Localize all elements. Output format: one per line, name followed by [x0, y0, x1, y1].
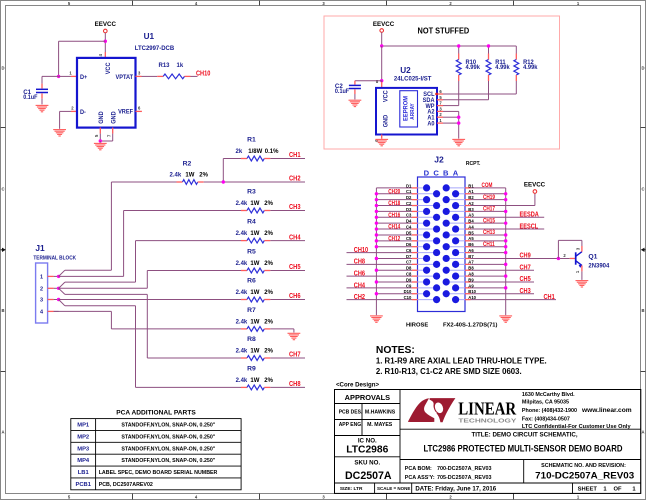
svg-text:CH14: CH14 — [388, 224, 401, 231]
svg-text:STANDOFF,NYLON, SNAP-ON, 0.250: STANDOFF,NYLON, SNAP-ON, 0.250" — [121, 446, 215, 452]
svg-text:VCC: VCC — [382, 90, 390, 102]
svg-text:PCA ASS'Y:: PCA ASS'Y: — [405, 475, 435, 481]
svg-text:LABEL SPEC, DEMO BOARD SERIAL: LABEL SPEC, DEMO BOARD SERIAL NUMBER — [99, 470, 218, 476]
svg-text:C: C — [433, 169, 439, 178]
svg-text:1W: 1W — [250, 290, 259, 296]
svg-text:MP3: MP3 — [77, 446, 90, 452]
svg-text:ARRAY: ARRAY — [409, 103, 415, 120]
svg-text:CH7: CH7 — [289, 351, 301, 359]
svg-text:DC2507A: DC2507A — [345, 470, 392, 482]
svg-text:2%: 2% — [264, 348, 273, 354]
svg-text:2.4k: 2.4k — [170, 172, 182, 178]
svg-text:CH8: CH8 — [289, 380, 301, 388]
svg-text:1W: 1W — [250, 231, 259, 237]
svg-text:710-DC2507A_REV03: 710-DC2507A_REV03 — [535, 470, 634, 481]
svg-text:LTC Confidential-For Customer: LTC Confidential-For Customer Use Only — [522, 424, 632, 430]
svg-text:CH10: CH10 — [196, 70, 211, 78]
svg-text:2: 2 — [40, 287, 43, 293]
svg-text:CH5: CH5 — [520, 276, 532, 284]
svg-text:CH1: CH1 — [544, 293, 556, 301]
svg-text:CH6: CH6 — [289, 293, 301, 301]
svg-text:CH20: CH20 — [388, 189, 400, 196]
svg-text:1W: 1W — [250, 201, 259, 207]
svg-text:PCB1: PCB1 — [75, 482, 91, 488]
svg-text:CH18: CH18 — [388, 201, 400, 208]
svg-text:CH7: CH7 — [520, 264, 532, 272]
svg-text:2%: 2% — [264, 201, 273, 207]
svg-text:STANDOFF,NYLON, SNAP-ON, 0.250: STANDOFF,NYLON, SNAP-ON, 0.250" — [121, 423, 215, 429]
svg-text:1W: 1W — [250, 378, 259, 384]
svg-text:TITLE: DEMO CIRCUIT SCHEMATIC: TITLE: DEMO CIRCUIT SCHEMATIC, — [472, 431, 578, 438]
svg-text:2%: 2% — [264, 261, 273, 267]
svg-text:2N3904: 2N3904 — [588, 262, 609, 269]
svg-text:APPROVALS: APPROVALS — [345, 393, 391, 402]
svg-text:EEVCC: EEVCC — [95, 21, 117, 28]
svg-text:www.linear.com: www.linear.com — [581, 407, 632, 414]
svg-text:GND: GND — [98, 111, 106, 124]
svg-text:STANDOFF,NYLON, SNAP-ON, 0.250: STANDOFF,NYLON, SNAP-ON, 0.250" — [121, 435, 215, 441]
svg-text:A: A — [453, 169, 459, 178]
svg-text:STANDOFF,NYLON, SNAP-ON, 0.250: STANDOFF,NYLON, SNAP-ON, 0.250" — [121, 458, 215, 464]
svg-text:<Core Design>: <Core Design> — [336, 381, 379, 388]
svg-text:R8: R8 — [247, 336, 256, 343]
svg-text:VPTAT: VPTAT — [115, 74, 133, 82]
svg-text:2. R10-R13, C1-C2 ARE SMD SIZE: 2. R10-R13, C1-C2 ARE SMD SIZE 0603. — [376, 367, 522, 376]
svg-text:Fax: (408)434-0507: Fax: (408)434-0507 — [522, 416, 570, 422]
svg-text:EESCL: EESCL — [520, 223, 539, 231]
svg-text:2%: 2% — [264, 378, 273, 384]
svg-text:M.HAWKINS: M.HAWKINS — [365, 409, 396, 415]
svg-text:J2: J2 — [434, 155, 444, 165]
svg-text:4.99k: 4.99k — [466, 64, 481, 71]
svg-text:CH11: CH11 — [483, 241, 495, 248]
svg-text:LINEAR: LINEAR — [458, 399, 517, 419]
svg-text:M. MAYES: M. MAYES — [367, 422, 393, 428]
svg-text:OF: OF — [614, 486, 623, 492]
svg-text:GND: GND — [110, 111, 118, 124]
svg-text:Q1: Q1 — [588, 253, 597, 260]
svg-text:D: D — [641, 66, 644, 71]
svg-text:4.99k: 4.99k — [495, 64, 510, 71]
svg-text:IC NO.: IC NO. — [358, 437, 377, 444]
svg-text:EESDA: EESDA — [520, 211, 540, 219]
svg-text:R2: R2 — [183, 161, 192, 168]
svg-text:R13: R13 — [159, 63, 171, 69]
svg-text:CH13: CH13 — [483, 230, 495, 237]
svg-text:LTC2986: LTC2986 — [346, 444, 388, 455]
svg-text:PCA BOM:: PCA BOM: — [405, 466, 432, 472]
svg-text:2.4k: 2.4k — [236, 261, 248, 267]
svg-text:CH4: CH4 — [354, 282, 366, 290]
svg-text:24LC025-I/ST: 24LC025-I/ST — [394, 75, 432, 82]
svg-text:705-DC2507A_REV03: 705-DC2507A_REV03 — [437, 475, 492, 481]
svg-text:CH2: CH2 — [289, 175, 301, 183]
svg-text:2.4k: 2.4k — [236, 231, 248, 237]
svg-text:SCALE = NONE: SCALE = NONE — [377, 486, 410, 491]
svg-text:PCB, DC2507AREV02: PCB, DC2507AREV02 — [99, 482, 153, 488]
svg-text:FX2-40S-1.27DS(71): FX2-40S-1.27DS(71) — [443, 322, 498, 328]
svg-text:0.1uF: 0.1uF — [23, 95, 38, 101]
svg-text:1/8W: 1/8W — [248, 149, 262, 155]
svg-text:2.4k: 2.4k — [236, 201, 248, 207]
svg-text:R7: R7 — [247, 307, 256, 314]
svg-text:HIROSE: HIROSE — [406, 322, 428, 328]
svg-text:SKU NO.: SKU NO. — [354, 459, 380, 466]
svg-text:CH9: CH9 — [520, 252, 532, 260]
svg-text:D: D — [1, 66, 4, 71]
svg-text:RCPT.: RCPT. — [466, 161, 481, 167]
svg-text:Phone: (408)432-1900: Phone: (408)432-1900 — [522, 408, 577, 414]
svg-text:R3: R3 — [247, 189, 256, 196]
svg-text:SCHEMATIC NO. AND REVISION:: SCHEMATIC NO. AND REVISION: — [541, 463, 626, 469]
svg-text:U1: U1 — [144, 32, 155, 41]
svg-text:R6: R6 — [247, 278, 256, 285]
svg-text:1. R1-R9 ARE AXIAL LEAD THRU-H: 1. R1-R9 ARE AXIAL LEAD THRU-HOLE TYPE. — [376, 357, 547, 366]
svg-text:1k: 1k — [177, 63, 184, 69]
svg-text:2%: 2% — [264, 231, 273, 237]
svg-text:A0: A0 — [427, 120, 435, 128]
svg-text:2.4k: 2.4k — [236, 290, 248, 296]
svg-text:R1: R1 — [247, 137, 256, 144]
svg-text:CH8: CH8 — [354, 258, 366, 266]
svg-text:2.4k: 2.4k — [236, 348, 248, 354]
svg-text:NOT STUFFED: NOT STUFFED — [418, 26, 470, 36]
svg-text:2%: 2% — [264, 319, 273, 325]
svg-text:GND: GND — [382, 114, 390, 127]
svg-text:CH17: CH17 — [483, 206, 495, 213]
svg-text:CH1: CH1 — [289, 152, 301, 160]
svg-text:CH3: CH3 — [520, 287, 532, 295]
svg-text:CH16: CH16 — [388, 212, 400, 219]
svg-text:NOTES:: NOTES: — [376, 345, 415, 356]
svg-text:1W: 1W — [185, 172, 194, 178]
svg-text:MP1: MP1 — [77, 423, 90, 429]
svg-text:R5: R5 — [247, 249, 256, 256]
svg-text:C: C — [1, 187, 4, 192]
svg-text:2.4k: 2.4k — [236, 319, 248, 325]
svg-text:CH2: CH2 — [354, 293, 366, 301]
svg-text:R4: R4 — [247, 219, 256, 226]
svg-text:3: 3 — [40, 298, 43, 304]
svg-text:2%: 2% — [199, 172, 208, 178]
svg-text:2.4k: 2.4k — [236, 378, 248, 384]
svg-text:MP4: MP4 — [77, 458, 90, 464]
svg-text:LB1: LB1 — [78, 470, 90, 476]
svg-text:EEVCC: EEVCC — [373, 21, 395, 28]
svg-text:1: 1 — [40, 275, 43, 281]
svg-text:R9: R9 — [247, 365, 256, 372]
svg-text:D: D — [424, 169, 430, 178]
svg-text:4.99k: 4.99k — [523, 64, 538, 71]
svg-text:U2: U2 — [400, 66, 411, 75]
svg-text:D+: D+ — [80, 74, 88, 82]
svg-text:DATE: Friday, June 17, 2016: DATE: Friday, June 17, 2016 — [415, 485, 496, 492]
svg-text:MP2: MP2 — [77, 435, 89, 441]
svg-text:D-: D- — [80, 109, 86, 117]
svg-text:B: B — [1, 308, 4, 313]
svg-text:TECHNOLOGY: TECHNOLOGY — [458, 418, 516, 424]
svg-text:COM: COM — [482, 183, 493, 190]
svg-text:2k: 2k — [236, 149, 243, 155]
svg-text:CH19: CH19 — [483, 194, 495, 201]
svg-text:A: A — [641, 430, 644, 435]
svg-text:PCB DES.: PCB DES. — [339, 409, 363, 415]
svg-text:A: A — [1, 430, 4, 435]
svg-text:SIZE: LTR: SIZE: LTR — [340, 486, 363, 492]
svg-text:TERMINAL BLOCK: TERMINAL BLOCK — [33, 255, 76, 261]
svg-text:CH15: CH15 — [483, 218, 495, 225]
svg-text:700-DC2507A_REV03: 700-DC2507A_REV03 — [437, 466, 492, 472]
svg-text:0.1uF: 0.1uF — [335, 89, 350, 95]
svg-text:J1: J1 — [35, 243, 45, 253]
svg-text:0.1%: 0.1% — [265, 149, 279, 155]
svg-text:B: B — [641, 308, 644, 313]
svg-text:SHEET: SHEET — [578, 486, 598, 492]
svg-text:B: B — [443, 169, 449, 178]
svg-text:1W: 1W — [250, 319, 259, 325]
svg-text:APP ENG.: APP ENG. — [339, 422, 363, 428]
svg-text:CH6: CH6 — [354, 270, 366, 278]
svg-text:CH5: CH5 — [289, 264, 301, 272]
svg-text:VCC: VCC — [104, 62, 112, 74]
svg-text:1W: 1W — [250, 348, 259, 354]
svg-text:1630 McCarthy Blvd.: 1630 McCarthy Blvd. — [522, 392, 575, 398]
svg-text:LTC2997-DCB: LTC2997-DCB — [135, 45, 175, 52]
svg-text:PCA ADDITIONAL PARTS: PCA ADDITIONAL PARTS — [116, 410, 196, 417]
svg-text:CH12: CH12 — [388, 236, 400, 243]
svg-text:EEVCC: EEVCC — [524, 181, 546, 188]
svg-text:VREF: VREF — [118, 108, 133, 116]
svg-text:CH10: CH10 — [354, 246, 369, 254]
svg-text:2%: 2% — [264, 290, 273, 296]
svg-text:1W: 1W — [250, 261, 259, 267]
svg-text:CH3: CH3 — [289, 204, 301, 212]
svg-text:Milpitas, CA 95035: Milpitas, CA 95035 — [522, 400, 569, 406]
svg-text:CH4: CH4 — [289, 234, 301, 242]
svg-text:C: C — [641, 187, 644, 192]
svg-text:LTC2986 PROTECTED MULTI-SENSOR: LTC2986 PROTECTED MULTI-SENSOR DEMO BOAR… — [424, 444, 623, 454]
